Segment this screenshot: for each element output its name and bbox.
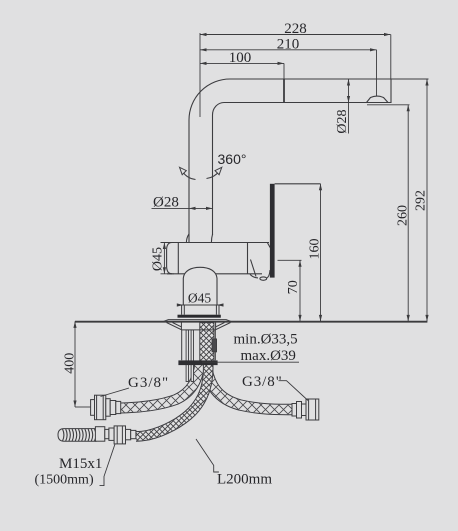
svg-text:Ø45: Ø45 — [188, 291, 211, 306]
svg-text:Ø45: Ø45 — [150, 247, 165, 271]
svg-text:Ø28: Ø28 — [153, 195, 179, 211]
svg-text:70: 70 — [286, 280, 301, 294]
svg-text:(1500mm): (1500mm) — [35, 473, 94, 488]
svg-text:M15x1: M15x1 — [59, 456, 102, 472]
svg-text:260: 260 — [395, 205, 410, 226]
svg-text:160: 160 — [307, 239, 322, 260]
svg-text:max.Ø39: max.Ø39 — [241, 348, 296, 364]
svg-text:G3/8": G3/8" — [242, 374, 283, 390]
svg-text:Ø28: Ø28 — [335, 109, 350, 133]
svg-text:G3/8": G3/8" — [128, 375, 169, 391]
svg-text:360°: 360° — [218, 151, 247, 167]
svg-text:292: 292 — [413, 190, 428, 211]
svg-text:100: 100 — [229, 50, 252, 66]
svg-text:min.Ø33,5: min.Ø33,5 — [234, 332, 298, 348]
svg-text:400: 400 — [63, 353, 78, 374]
svg-text:228: 228 — [284, 21, 307, 37]
svg-text:210: 210 — [277, 36, 300, 52]
svg-text:L200mm: L200mm — [217, 472, 272, 488]
